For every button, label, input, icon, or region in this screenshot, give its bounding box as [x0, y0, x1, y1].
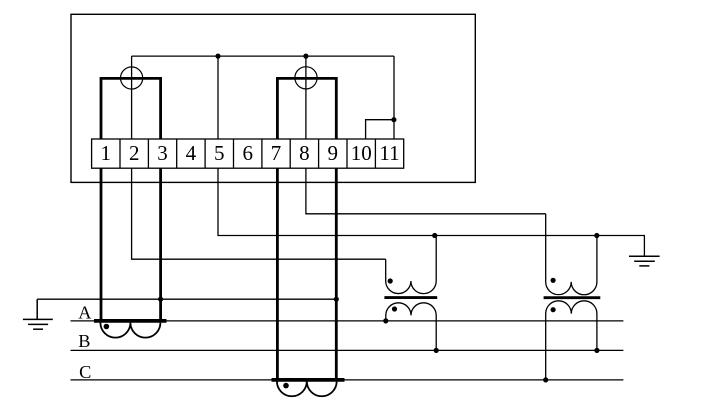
- svg-text:4: 4: [186, 141, 197, 165]
- svg-text:2: 2: [129, 141, 140, 165]
- phase C line: [71, 379, 624, 381]
- svg-text:5: 5: [214, 141, 225, 165]
- svg-text:C: C: [79, 362, 91, 382]
- PT1 primary winding: [386, 303, 436, 351]
- voltage coil circle phase A: [121, 67, 143, 89]
- current coil loop terminals 7-9: [277, 78, 336, 139]
- svg-text:A: A: [78, 303, 92, 323]
- CT A polarity dot: [104, 324, 110, 330]
- node dot PT1 secondary to bus: [432, 233, 437, 238]
- node dot PT1 primary phase A: [383, 318, 388, 323]
- node dot terminal 5 top bus: [215, 54, 220, 59]
- CT C polarity dot: [283, 383, 289, 389]
- secondary earthing wire: [37, 298, 336, 300]
- wire terminal 1 down to CT A: [100, 168, 103, 321]
- PT1 secondary polarity dot: [388, 278, 393, 283]
- node dot PT2 secondary to bus: [594, 233, 599, 238]
- node dot terminal 3 earthing: [158, 297, 163, 302]
- node dot PT1 primary phase B: [434, 348, 439, 353]
- svg-text:8: 8: [299, 141, 310, 165]
- ground symbol left: [23, 299, 53, 329]
- wire terminal 10 to terminal 11 drop: [366, 120, 394, 139]
- top voltage bus wire: [132, 55, 394, 57]
- wire terminal 2 down to PT1 secondary: [132, 168, 386, 259]
- wire terminal 3 down to CT A: [159, 168, 162, 321]
- voltage coil circle phase C: [295, 67, 317, 89]
- wire top bus down to terminal 11: [393, 56, 395, 139]
- PT1 primary polarity dot: [392, 306, 397, 311]
- PT2 secondary winding: [546, 214, 597, 295]
- grounded voltage bus wire terminal 5: [218, 168, 644, 256]
- node dot terminal 8 top bus: [303, 54, 308, 59]
- wire terminal 5 up to top bus: [217, 56, 219, 139]
- svg-text:7: 7: [271, 141, 282, 165]
- node dot PT2 primary phase C: [543, 377, 548, 382]
- wire terminal 8 down to PT2 secondary: [306, 168, 546, 214]
- node dot PT2 primary phase B: [594, 348, 599, 353]
- wire terminal 8 up to top bus: [305, 56, 307, 139]
- svg-text:6: 6: [242, 141, 253, 165]
- CT C primary bar: [272, 378, 345, 382]
- PT1 core bar: [384, 296, 437, 299]
- CT C secondary winding: [277, 381, 337, 396]
- terminal strip: [92, 139, 404, 168]
- phase B line: [71, 349, 624, 351]
- PT1 secondary winding: [386, 236, 437, 294]
- current coil loop terminals 1-3: [101, 78, 161, 139]
- phase A line: [71, 320, 624, 322]
- CT A primary bar: [94, 319, 167, 323]
- node dot terminal 10 junction: [391, 117, 396, 122]
- wire terminal 7 down to CT C: [276, 168, 279, 380]
- svg-text:9: 9: [328, 141, 339, 165]
- wire terminal 2 up to top bus: [131, 56, 133, 139]
- svg-text:1: 1: [101, 141, 112, 165]
- PT2 core bar: [544, 296, 601, 299]
- svg-text:10: 10: [351, 141, 372, 165]
- PT2 secondary polarity dot: [551, 278, 556, 283]
- meter box: [71, 14, 475, 182]
- ground symbol right: [629, 256, 660, 266]
- PT2 primary winding: [546, 301, 597, 380]
- svg-text:B: B: [78, 331, 90, 351]
- svg-text:11: 11: [379, 141, 399, 165]
- wire terminal 9 down to CT C: [335, 168, 338, 380]
- svg-text:3: 3: [157, 141, 168, 165]
- PT2 primary polarity dot: [551, 307, 556, 312]
- CT A secondary winding: [100, 323, 160, 338]
- node dot terminal 9 earthing: [334, 297, 339, 302]
